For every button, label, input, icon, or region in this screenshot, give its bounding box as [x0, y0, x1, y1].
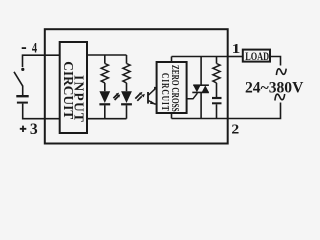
LED D1 cathode bar: [99, 103, 110, 105]
wire AC source to terminal 2: [228, 103, 281, 119]
wire branch 2 top: [126, 55, 128, 64]
wire D2 to bottom: [126, 105, 128, 118]
phototransistor Q1 collector: [149, 88, 157, 95]
triac T1 bottom bar: [192, 91, 209, 93]
snubber capacitor C1 plate top: [212, 97, 222, 99]
svg-text:INPUT: INPUT: [72, 75, 87, 123]
wire input circuit top to LED branches: [87, 54, 127, 56]
wire zero cross top stub: [171, 57, 173, 63]
wire triac top: [200, 57, 202, 86]
svg-text:CIRCUIT: CIRCUIT: [160, 73, 171, 112]
wire battery to terminal 3: [23, 104, 60, 119]
load box: [243, 50, 270, 62]
svg-text:ZERO CROSS: ZERO CROSS: [170, 65, 181, 112]
wire load to AC source: [270, 57, 281, 66]
wire input circuit bottom to LED branches: [87, 118, 127, 120]
svg-text:4: 4: [32, 40, 38, 56]
wire output bottom rail: [172, 118, 228, 120]
LED D2 light arrow b: [137, 96, 142, 101]
node label + 3: [20, 126, 27, 132]
zero cross circuit block U2: [157, 62, 187, 113]
svg-text:2: 2: [231, 122, 239, 137]
wire terminal 1 to load: [228, 56, 243, 58]
switch S1 blade: [14, 72, 23, 86]
LED D1 light arrow a: [113, 95, 117, 99]
battery BT1 plate short: [17, 102, 28, 104]
wire gate from zero cross to triac: [187, 93, 198, 99]
wire R3 to C1: [216, 83, 218, 97]
LED D1 light arrow b: [115, 96, 119, 100]
switch S1 contact dot: [21, 68, 24, 71]
snubber resistor R3: [213, 64, 220, 83]
AC source tilde top: [276, 69, 286, 76]
triac T1 top bar: [193, 84, 209, 86]
svg-text:3: 3: [30, 121, 38, 138]
wire triac bottom: [200, 92, 202, 118]
wire R1 to D1: [104, 83, 106, 91]
LED D2 triangle: [121, 91, 132, 103]
battery BT1 plate long: [16, 95, 28, 97]
phototransistor Q1 emitter: [149, 101, 157, 104]
AC source tilde bottom: [275, 94, 285, 101]
wire D1 to bottom: [104, 105, 106, 118]
main SSR enclosure box: [45, 29, 228, 143]
wire output top rail: [172, 56, 228, 58]
wire C1 to bottom rail: [216, 104, 218, 118]
snubber capacitor C1 plate bottom: [212, 102, 222, 104]
wire branch 1 top: [104, 55, 106, 64]
wire switch to battery: [22, 86, 24, 96]
svg-text:1: 1: [232, 42, 241, 57]
phototransistor Q1 emitter arrowhead: [150, 101, 155, 105]
triac T1 left triangle: [193, 85, 200, 92]
wire snubber top: [216, 57, 218, 64]
resistor R2: [123, 64, 130, 83]
svg-text:LOAD: LOAD: [245, 51, 269, 64]
resistor R1: [101, 64, 108, 83]
input circuit block U1: [60, 42, 87, 133]
wire terminal 4 to input circuit: [23, 55, 60, 67]
phototransistor Q1 base bar: [147, 92, 149, 104]
LED D2 light arrow a: [135, 94, 140, 99]
wire R2 to D2: [126, 83, 128, 91]
wire zero cross bottom stub: [171, 113, 173, 119]
LED D1 triangle: [99, 91, 110, 103]
node label - 4: [22, 47, 26, 49]
svg-text:24~380V: 24~380V: [245, 80, 304, 97]
LED D2 cathode bar: [121, 103, 132, 105]
triac T1 right triangle: [202, 85, 209, 92]
